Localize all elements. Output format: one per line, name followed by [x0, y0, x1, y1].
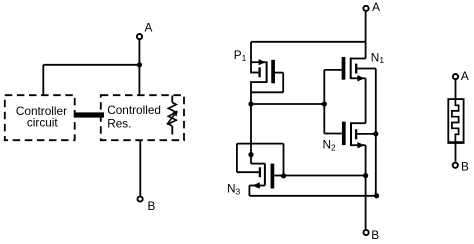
svg-text:N2: N2 [323, 138, 337, 153]
svg-text:A: A [145, 21, 153, 35]
svg-text:A: A [372, 0, 380, 14]
svg-text:A: A [461, 69, 469, 83]
svg-text:N3: N3 [227, 182, 241, 197]
svg-text:B: B [371, 228, 379, 242]
svg-text:P1: P1 [234, 48, 247, 63]
svg-text:B: B [148, 199, 156, 213]
svg-text:circuit: circuit [27, 116, 59, 130]
svg-text:Controlled: Controlled [107, 103, 161, 117]
svg-text:Res.: Res. [107, 116, 131, 130]
svg-text:N1: N1 [371, 50, 385, 65]
svg-text:B: B [461, 160, 469, 174]
